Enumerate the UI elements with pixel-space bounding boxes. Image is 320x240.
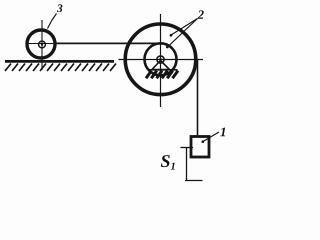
support hatching — [146, 71, 178, 79]
wheel 3 center lines — [41, 20, 43, 70]
leader to wheel 3 — [48, 14, 57, 29]
wheel 3 hub — [39, 41, 46, 48]
dimension top tick — [181, 147, 194, 149]
wheel 3 rim — [27, 30, 55, 58]
label 3 — [57, 4, 63, 12]
leader to block 1 — [203, 132, 219, 142]
dimension bottom tick — [185, 180, 203, 182]
ground line — [5, 60, 114, 63]
pulley 2 hub — [157, 56, 164, 63]
pulley 2 center lines — [160, 14, 162, 107]
label 1 — [220, 128, 225, 137]
block 1 — [191, 137, 209, 158]
support base line — [148, 69, 178, 71]
ground hatching (left) — [5, 64, 116, 72]
rope from wheel to inner pulley (horizontal) — [55, 42, 161, 44]
pulley 2 outer circle — [125, 24, 196, 95]
leader 2b (to inner circle) — [168, 19, 198, 48]
label S1 — [161, 155, 170, 167]
rope down to block (vertical) — [197, 59, 199, 137]
pivot support triangle — [152, 61, 170, 70]
leader 2a (to outer rim) — [171, 19, 198, 36]
label 2 — [198, 10, 204, 18]
pulley 2 inner circle — [145, 43, 177, 75]
dimension S1 vertical line — [186, 148, 188, 181]
